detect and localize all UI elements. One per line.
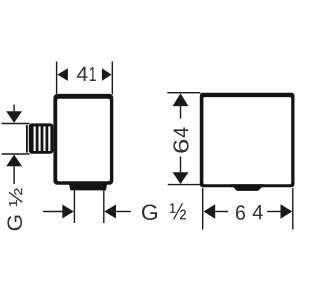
thread end bar (26, 125, 28, 153)
dimension: bottom outlet (left view) with G 1/2 label (43, 191, 131, 224)
dimension: 64 vertical (right view) (167, 93, 200, 185)
text: bot 6 (236, 205, 245, 220)
dimension: 64 horizontal (bottom of right view) (203, 188, 293, 230)
extension line left of 41 (56, 62, 58, 95)
arrow left of 41 (57, 68, 68, 81)
text: rot G (7, 216, 22, 231)
bottom outlet tab (front) (231, 184, 265, 191)
dimension: G 1/2 (left thread, vertical) (2, 105, 30, 185)
arrow right of 41 (102, 68, 112, 81)
bottom outlet flange tab (69, 184, 107, 190)
left view: outlet body (side view) (26, 94, 113, 190)
text: digit 1 of 41 (90, 67, 96, 81)
text: bot 4 (253, 205, 263, 219)
text: bot G (142, 205, 157, 221)
text: digit 4 of 41 (77, 67, 88, 81)
text: bot half (170, 203, 186, 219)
right view: front square (200, 93, 295, 191)
text: rot half (9, 188, 22, 206)
body outline (53, 94, 113, 185)
threaded inlet connector (29, 123, 54, 153)
extension line right of 41 (111, 62, 113, 95)
text: vert 4 (174, 127, 189, 137)
text: vert 6 (173, 140, 188, 153)
